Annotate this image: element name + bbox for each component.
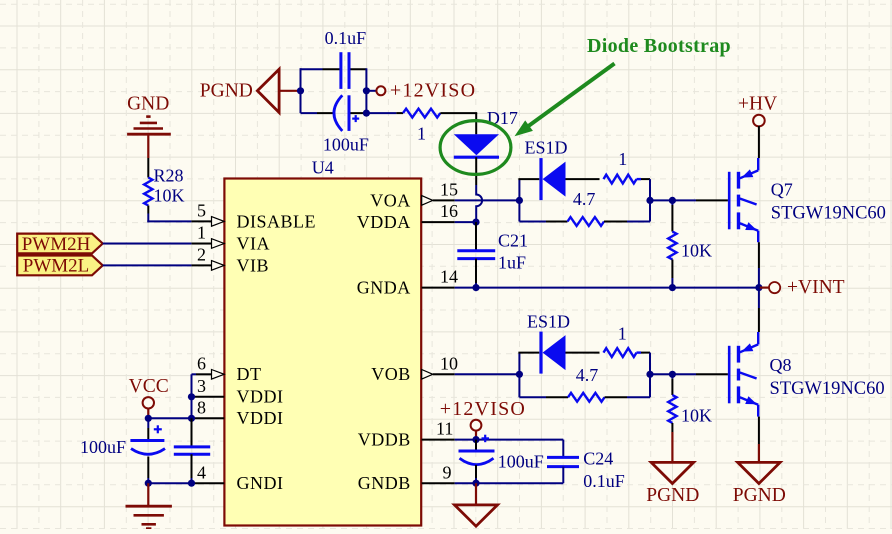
capacitor C24 0.1uF — [547, 440, 625, 491]
svg-text:C21: C21 — [498, 231, 528, 251]
svg-text:+12VISO: +12VISO — [390, 79, 476, 101]
svg-text:1uF: 1uF — [498, 252, 526, 272]
wire GNDA net — [455, 287, 759, 289]
pin 11 VDDB — [422, 439, 455, 441]
svg-text:VOA: VOA — [370, 190, 411, 210]
svg-text:VIB: VIB — [237, 255, 270, 275]
svg-text:+HV: +HV — [738, 94, 777, 115]
svg-text:GNDA: GNDA — [357, 278, 411, 298]
svg-text:9: 9 — [443, 462, 452, 482]
svg-text:PWM2L: PWM2L — [23, 256, 90, 277]
wire D17 to VDDA node (with hop) — [476, 157, 482, 222]
node VCC — [145, 415, 152, 422]
capacitor 100uF (VCC, polarized) — [80, 418, 165, 483]
wire ES1D to R1 (lower) — [566, 352, 600, 354]
svg-text:VDDI: VDDI — [237, 408, 284, 428]
wire ES1D to R1 (upper) — [566, 178, 600, 180]
svg-text:4: 4 — [197, 462, 206, 482]
wire VOB to network — [455, 373, 520, 375]
svg-text:16: 16 — [440, 201, 458, 221]
wire Q7 emitter to +VINT — [758, 242, 760, 287]
node PGND-cap left — [297, 87, 304, 94]
svg-text:1: 1 — [197, 223, 206, 243]
node VOB split — [516, 371, 523, 378]
IC U4 body — [224, 158, 421, 526]
resistor 1 (upper gate) — [604, 149, 637, 183]
wire GNDI — [147, 482, 191, 484]
IC U4 left pin names — [237, 211, 317, 493]
node VDDI-3 — [188, 393, 195, 400]
resistor 10K (lower) — [668, 374, 712, 432]
wire network right vertical (upper) — [649, 179, 651, 221]
svg-text:DT: DT — [237, 364, 262, 384]
power port GND (top) — [127, 93, 171, 134]
wire VDDI vertical — [191, 374, 193, 418]
svg-text:2: 2 — [197, 245, 206, 265]
svg-text:VDDA: VDDA — [357, 212, 411, 232]
svg-text:+12VISO: +12VISO — [440, 398, 526, 420]
resistor 10K (upper) — [668, 200, 712, 287]
pin 9 GNDB — [422, 482, 455, 484]
resistor 4.7 (lower) — [568, 365, 605, 402]
svg-text:GND: GND — [127, 93, 169, 114]
port PWM2L — [17, 256, 103, 277]
capacitor VDDI decoupling — [174, 418, 210, 483]
svg-text:VCC: VCC — [129, 376, 169, 397]
svg-text:STGW19NC60: STGW19NC60 — [771, 204, 886, 224]
wire GND to R28 — [147, 134, 149, 177]
wire 4.7 to corner (lower) — [605, 396, 651, 398]
svg-text:100uF: 100uF — [80, 437, 126, 457]
wire +HV to Q7 collector — [758, 126, 760, 158]
diode ES1D (upper) — [525, 137, 568, 200]
power port PGND (bottom middle) — [455, 483, 498, 526]
wire +VINT to Q8 collector — [758, 288, 760, 332]
power port +VINT — [759, 277, 845, 298]
wire VOA to network — [455, 199, 520, 201]
pin 6 DT — [192, 370, 225, 380]
power port +HV — [738, 94, 777, 127]
svg-text:0.1uF: 0.1uF — [583, 471, 625, 491]
node GNDI left — [145, 480, 152, 487]
wire lower branch (upper loop) — [519, 221, 567, 223]
svg-text:10K: 10K — [681, 241, 712, 261]
svg-text:VOB: VOB — [371, 364, 411, 384]
wire cap-bank right vertical — [365, 68, 367, 113]
svg-text:10: 10 — [440, 353, 458, 373]
pin 4 GNDI — [192, 482, 225, 484]
pin 1 VIA — [191, 239, 224, 249]
svg-text:GNDI: GNDI — [237, 473, 284, 493]
pin 15 VOA — [422, 196, 455, 206]
svg-text:0.1uF: 0.1uF — [325, 28, 367, 48]
svg-text:U4: U4 — [312, 158, 334, 178]
pin 3 VDDI — [192, 396, 225, 398]
svg-text:1: 1 — [417, 124, 426, 144]
diode ES1D (lower) — [527, 311, 570, 373]
svg-text:Diode Bootstrap: Diode Bootstrap — [587, 35, 731, 57]
power port PGND (Q8) — [733, 417, 786, 507]
svg-text:4.7: 4.7 — [573, 189, 596, 209]
annotation green ellipse — [440, 121, 511, 175]
svg-text:14: 14 — [440, 267, 458, 287]
pin 16 VDDA — [422, 221, 455, 223]
svg-text:100uF: 100uF — [498, 451, 544, 471]
resistor R28 10K — [144, 165, 184, 205]
transistor Q7 STGW19NC60 — [729, 158, 886, 242]
wire cap-bank bottom — [301, 112, 367, 114]
wire pin11 net — [455, 439, 564, 441]
wire PWM2L to pin2 — [103, 264, 192, 266]
wire network right vertical (lower) — [649, 353, 651, 398]
svg-text:GNDB: GNDB — [358, 473, 411, 493]
svg-text:ES1D: ES1D — [525, 137, 568, 157]
node cap right bottom — [363, 110, 370, 117]
wire +12VISO to R1 — [366, 112, 403, 114]
svg-text:11: 11 — [436, 419, 453, 439]
IC U4 right pin numbers — [436, 180, 458, 483]
pin 5 DISABLE — [191, 217, 224, 227]
node VDDA junction — [472, 219, 479, 226]
wire VCC to pin8 — [147, 417, 191, 419]
IC U4 left pin numbers — [197, 201, 206, 483]
pin 14 GNDA — [422, 287, 455, 289]
pin 2 VIB — [191, 261, 224, 271]
wire to Q8 gate — [650, 373, 728, 375]
transistor Q8 STGW19NC60 — [729, 332, 884, 417]
svg-text:PWM2H: PWM2H — [22, 234, 91, 255]
node network right (lower) — [646, 371, 653, 378]
node VDDI-8 — [188, 415, 195, 422]
svg-text:PGND: PGND — [733, 485, 786, 506]
svg-text:100uF: 100uF — [323, 134, 369, 154]
node GNDA-Q7 — [755, 284, 762, 291]
resistor 1 (bootstrap) — [403, 109, 440, 144]
diode D17 — [454, 108, 518, 157]
svg-text:1: 1 — [618, 149, 627, 169]
wire network left vertical (lower) — [518, 353, 520, 398]
node GNDA-C21 — [472, 284, 479, 291]
node GNDB junction — [472, 480, 479, 487]
wire PWM2H to pin1 — [103, 243, 192, 245]
pin 10 VOB — [422, 370, 455, 380]
wire 4.7 to corner (upper) — [604, 221, 650, 223]
wire R1 to D17 — [440, 113, 477, 134]
svg-text:3: 3 — [197, 376, 206, 396]
svg-text:STGW19NC60: STGW19NC60 — [770, 379, 885, 399]
wire R1 to corner (upper) — [637, 178, 651, 180]
resistor 4.7 (upper) — [568, 189, 605, 226]
power port GND (bottom) — [126, 483, 172, 528]
svg-text:6: 6 — [197, 353, 206, 373]
svg-text:10K: 10K — [681, 406, 712, 426]
svg-text:5: 5 — [197, 201, 206, 221]
wire upper diode branch left — [518, 178, 539, 180]
node 10K tap (upper) — [669, 197, 676, 204]
wire lower diode branch left — [518, 352, 539, 354]
svg-text:DISABLE: DISABLE — [237, 211, 317, 231]
svg-text:1: 1 — [618, 323, 627, 343]
svg-text:ES1D: ES1D — [527, 311, 570, 331]
wire pin9 net — [455, 482, 564, 484]
node network right (upper) — [646, 197, 653, 204]
wire cap-bank left vertical — [300, 68, 302, 113]
svg-text:+VINT: +VINT — [787, 277, 845, 298]
capacitor 100uF (12VISO, polarized) — [459, 435, 544, 484]
wire pin16 net — [455, 221, 476, 223]
power port VCC — [129, 376, 169, 419]
svg-text:PGND: PGND — [200, 80, 253, 101]
svg-text:R28: R28 — [154, 165, 184, 185]
svg-text:PGND: PGND — [646, 485, 699, 506]
node GNDI right — [188, 480, 195, 487]
wire R1 to corner (lower) — [637, 351, 651, 353]
node GNDA-10K — [669, 284, 676, 291]
port PWM2H — [17, 234, 103, 255]
svg-text:VDDB: VDDB — [358, 430, 411, 450]
svg-text:8: 8 — [197, 397, 206, 417]
annotation green arrow — [515, 64, 615, 137]
power port PGND (10K) — [646, 432, 699, 506]
svg-text:4.7: 4.7 — [576, 365, 599, 385]
svg-text:C24: C24 — [583, 449, 613, 469]
capacitor 100uF (top, polarized) — [323, 95, 369, 154]
wire R28 to pin5 — [147, 206, 191, 223]
IC U4 right pin names — [357, 190, 411, 493]
power port +12VISO (bottom) — [440, 398, 526, 440]
node +12VISO-11 — [472, 436, 479, 443]
node VOA split — [516, 197, 523, 204]
resistor 1 (lower gate) — [604, 323, 637, 357]
wire network left vertical (upper) — [518, 179, 520, 221]
node 10K tap (lower) — [669, 371, 676, 378]
wire to Q7 gate — [650, 199, 728, 201]
wire lower branch (lower loop) — [519, 396, 568, 398]
pin 8 VDDI — [192, 417, 225, 419]
svg-text:10K: 10K — [154, 186, 185, 206]
svg-text:VDDI: VDDI — [237, 387, 284, 407]
svg-text:Q8: Q8 — [770, 355, 792, 375]
svg-text:15: 15 — [440, 180, 458, 200]
power port +12VISO (top) — [366, 79, 476, 101]
svg-text:VIA: VIA — [237, 233, 271, 253]
power port PGND (top) — [200, 69, 301, 112]
capacitor C21 1uF — [457, 222, 528, 288]
wire cap-bank top — [301, 68, 367, 70]
capacitor 0.1uF (top) — [325, 28, 367, 89]
svg-text:Q7: Q7 — [771, 179, 793, 199]
node cap right top — [363, 87, 370, 94]
